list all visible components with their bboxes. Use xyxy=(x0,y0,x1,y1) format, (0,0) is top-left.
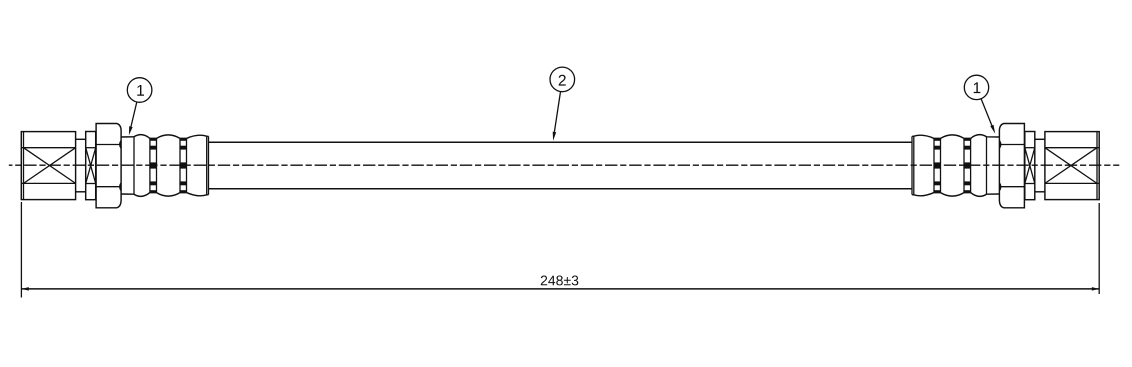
right crimp marks group 2 xyxy=(934,138,940,193)
left crimp marks group 2 xyxy=(180,138,186,193)
right fitting (mirrored) xyxy=(912,124,1099,208)
left step neck xyxy=(76,139,86,192)
hose xyxy=(209,142,913,189)
left socket body xyxy=(21,132,75,200)
right collar washer xyxy=(1025,132,1035,200)
dimension text 248±3 xyxy=(541,276,579,286)
right step neck xyxy=(1035,139,1045,192)
left hex nut xyxy=(96,124,121,208)
dimension line 248±3 xyxy=(21,287,1099,291)
right crimp sleeve xyxy=(912,135,999,197)
balloon 1 right xyxy=(964,75,995,133)
left extension line xyxy=(20,202,22,298)
right hex nut xyxy=(999,124,1024,208)
balloon 2 center xyxy=(550,67,575,141)
left crimp marks group 1 xyxy=(150,138,156,193)
balloon 1 left xyxy=(127,78,152,136)
right socket body xyxy=(1045,132,1099,200)
left crimp sleeve xyxy=(121,135,208,197)
centerline xyxy=(9,164,1120,166)
right extension line xyxy=(1098,203,1100,294)
left collar washer xyxy=(86,132,96,200)
right crimp marks group 1 xyxy=(964,138,970,193)
